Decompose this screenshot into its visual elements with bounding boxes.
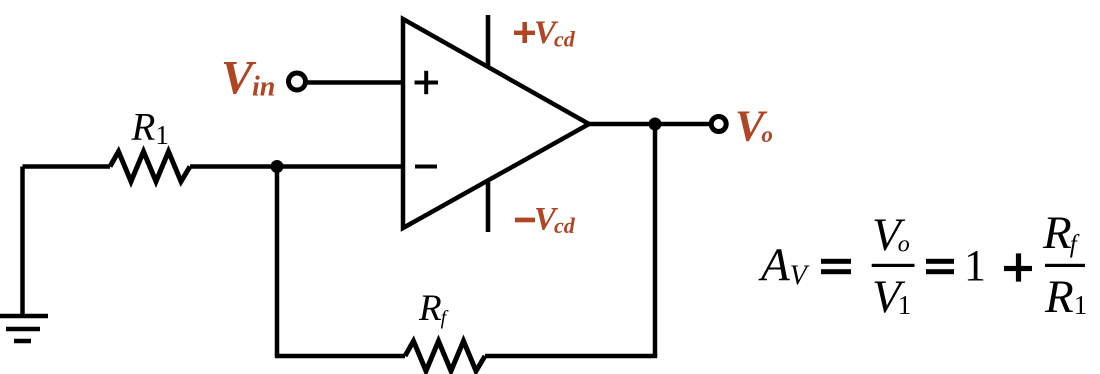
wire ground branch to R1 [23, 164, 111, 169]
op-amp U1 [403, 19, 589, 228]
gain formula Av = Vo/V1 = 1 + Rf/R1 [758, 207, 1087, 323]
svg-text:Vo: Vo [735, 102, 773, 151]
positive supply pin wire [486, 15, 491, 67]
svg-text:V1: V1 [872, 271, 911, 323]
svg-text:Rf: Rf [1042, 207, 1080, 259]
resistor R1 [110, 152, 190, 182]
wire Rf to output vertical [485, 354, 657, 359]
wire feedback left vertical from node A [275, 167, 280, 357]
wire feedback right vertical up to output node [653, 124, 658, 356]
svg-text:Vin: Vin [221, 52, 275, 105]
svg-text:Vo: Vo [872, 209, 910, 261]
formula fraction bar 1 [872, 264, 915, 267]
formula equals sign 2 [926, 259, 954, 264]
svg-text:Rf: Rf [418, 288, 449, 329]
label -Vcd minus sign [515, 218, 535, 223]
formula fraction bar 2 [1045, 264, 1085, 267]
wire op-amp output to Vo terminal [589, 122, 711, 127]
formula plus sign [1004, 266, 1032, 271]
node B junction dot on output [649, 118, 662, 131]
ground [0, 316, 48, 341]
wire Vin terminal to non-inverting input [306, 80, 403, 85]
label +Vcd plus sign [514, 22, 535, 43]
svg-text:R1: R1 [131, 106, 169, 151]
node A junction dot [271, 160, 284, 173]
wire R1 to inverting input [190, 164, 403, 169]
svg-text:Vcd: Vcd [534, 15, 576, 52]
svg-text:Vcd: Vcd [534, 202, 576, 239]
op-amp non-inverting input plus symbol [415, 71, 439, 94]
wire feedback bottom left to Rf [275, 354, 405, 359]
negative supply pin wire [486, 180, 491, 232]
svg-text:R1: R1 [1044, 271, 1087, 323]
formula equals sign 1 [821, 259, 851, 264]
terminal Vo open circle [711, 117, 726, 132]
resistor Rf [405, 341, 485, 371]
svg-text:1: 1 [964, 241, 986, 290]
wire down to ground [20, 167, 25, 317]
svg-text:AV: AV [758, 239, 810, 292]
op-amp inverting input minus symbol [415, 165, 437, 169]
terminal Vin open circle [289, 73, 306, 90]
